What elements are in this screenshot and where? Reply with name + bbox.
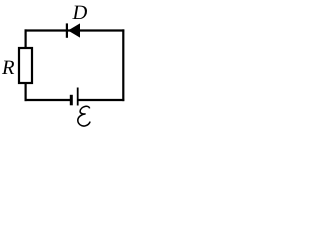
wire left side upper [25,29,27,48]
diode D cathode bar [66,23,68,37]
resistor R box [19,48,32,83]
EMF label script E [78,106,90,126]
wire left side lower [25,83,27,101]
battery long thin plate (positive) [77,88,79,106]
battery short thick plate (negative) [70,95,73,106]
diode D triangle [68,23,80,37]
wire bottom left segment [25,99,71,101]
wire right side [122,29,124,101]
svg-text:R: R [1,57,15,79]
svg-text:D: D [72,2,88,24]
wire bottom right segment [78,99,124,101]
wire top side [25,29,125,31]
